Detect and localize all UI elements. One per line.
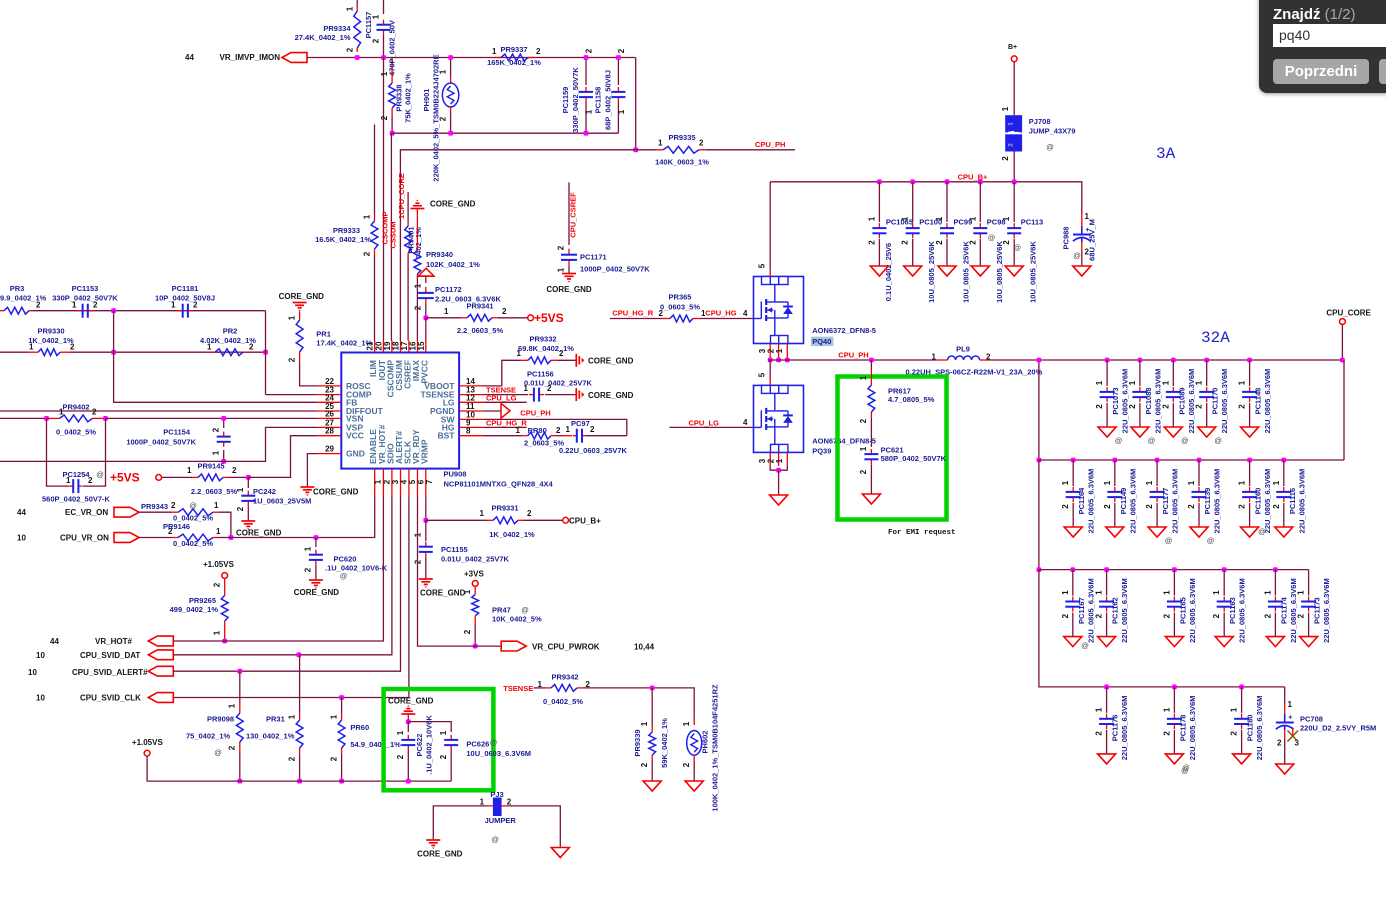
svg-text:1000P_0402_50V7K: 1000P_0402_50V7K: [580, 265, 650, 274]
svg-text:2: 2: [212, 427, 221, 432]
svg-text:1U_0603_25V5M: 1U_0603_25V5M: [253, 497, 311, 506]
wire TSENSE right: [583, 688, 694, 719]
svg-text:1: 1: [171, 301, 176, 310]
svg-text:@: @: [214, 748, 222, 757]
wire CPU_HG_R stub: [610, 318, 663, 320]
ground PC1160: [1241, 527, 1259, 537]
svg-text:29: 29: [325, 445, 334, 454]
svg-text:2: 2: [1095, 613, 1104, 618]
svg-text:22U_0805_6.3V6M: 22U_0805_6.3V6M: [1220, 369, 1229, 434]
capacitor PC626: [450, 735, 452, 740]
svg-text:CORE_GND: CORE_GND: [588, 357, 634, 366]
power arrow PVCC: [418, 268, 434, 276]
svg-text:1: 1: [775, 458, 784, 463]
svg-text:10U_0805_25V6K: 10U_0805_25V6K: [1029, 241, 1038, 303]
junction PQ39 source: [776, 468, 781, 473]
junction PR31 bottom: [297, 779, 302, 784]
svg-text:PR9341: PR9341: [466, 302, 493, 311]
svg-text:@: @: [490, 738, 498, 747]
capacitor PC1065: [878, 182, 880, 222]
svg-text:2: 2: [1061, 613, 1070, 618]
resistor PR9341: [426, 317, 461, 319]
junction row1 PC1170: [1204, 358, 1209, 363]
svg-text:PR3: PR3: [10, 284, 25, 293]
svg-text:PR9334: PR9334: [323, 24, 351, 33]
svg-text:PH602: PH602: [701, 731, 710, 754]
svg-text:10U_0805_25V6K: 10U_0805_25V6K: [927, 241, 936, 303]
wire HG stub: [484, 426, 527, 428]
svg-text:22U_0805_6.3V6M: 22U_0805_6.3V6M: [1213, 469, 1222, 534]
pin 15 PVCC: [425, 341, 427, 353]
pin 14 VBOOT: [459, 385, 484, 387]
svg-text:1: 1: [288, 714, 297, 719]
svg-text:PR365: PR365: [669, 293, 692, 302]
svg-text:PC1160: PC1160: [1254, 488, 1263, 515]
svg-text:1K_0402_1%: 1K_0402_1%: [489, 530, 535, 539]
svg-text:5: 5: [758, 372, 767, 377]
svg-text:PR9333: PR9333: [333, 226, 360, 235]
svg-text:CPU_SVID_CLK: CPU_SVID_CLK: [80, 694, 141, 703]
svg-text:1: 1: [1288, 700, 1293, 709]
svg-text:PR9331: PR9331: [491, 504, 518, 513]
svg-text:580P_0402_50V7K: 580P_0402_50V7K: [881, 454, 947, 463]
resistor PR9402: [47, 417, 60, 419]
ground CORE_GND bar 2: [575, 388, 577, 401]
pin 18 CSSUM: [400, 341, 402, 353]
junction CPU_B+ 912: [910, 179, 915, 184]
svg-text:2: 2: [232, 466, 237, 475]
junction row4 PC1178: [1172, 685, 1177, 690]
junction PC1159 top: [584, 55, 589, 60]
svg-text:2: 2: [463, 629, 472, 634]
svg-text:CPU_CSREF: CPU_CSREF: [569, 192, 578, 238]
resistor PR9343: [139, 511, 172, 513]
svg-text:CORE_GND: CORE_GND: [420, 589, 466, 598]
svg-text:CPU_SVID_DAT: CPU_SVID_DAT: [80, 651, 140, 660]
capacitor PC1171: [568, 249, 570, 255]
ground PC242: [241, 520, 255, 522]
svg-text:2: 2: [236, 506, 245, 511]
svg-text:560P_0402_50V7-K: 560P_0402_50V7-K: [42, 495, 111, 504]
svg-text:44: 44: [185, 53, 194, 62]
svg-text:2: 2: [228, 745, 237, 750]
svg-text:26: 26: [325, 409, 334, 418]
capacitor PC1174: [1274, 570, 1276, 596]
svg-text:PR9337: PR9337: [500, 45, 527, 54]
svg-text:1: 1: [1162, 590, 1171, 595]
svg-text:CPU_SVID_ALERT#: CPU_SVID_ALERT#: [72, 668, 148, 677]
wire left drop row2: [1038, 360, 1040, 460]
svg-text:RR80: RR80: [528, 426, 547, 435]
ground PC708: [1276, 764, 1294, 774]
svg-text:JUMP_43X79: JUMP_43X79: [1029, 127, 1076, 136]
svg-text:75_0402_1%: 75_0402_1%: [186, 732, 231, 741]
resistor PR9339: [651, 688, 653, 726]
svg-text:PC708: PC708: [1300, 715, 1323, 724]
svg-text:1: 1: [1263, 590, 1272, 595]
wire left drop row4: [1039, 570, 1107, 687]
svg-text:@: @: [1258, 527, 1266, 536]
svg-text:2: 2: [1238, 504, 1247, 509]
svg-text:For EMI request: For EMI request: [888, 529, 956, 537]
svg-text:22U_0805_6.3V6M: 22U_0805_6.3V6M: [1086, 578, 1095, 643]
pin 25 DIFFOUT: [317, 410, 342, 412]
svg-text:1: 1: [1212, 590, 1221, 595]
svg-text:8: 8: [466, 427, 471, 436]
svg-text:22U_0805_6.3V6M: 22U_0805_6.3V6M: [1121, 369, 1130, 434]
svg-text:1K_0402_1%: 1K_0402_1%: [28, 336, 74, 345]
svg-text:PC242: PC242: [253, 487, 276, 496]
svg-text:PR9145: PR9145: [197, 462, 224, 471]
svg-text:PC1073: PC1073: [1111, 387, 1120, 414]
wire CSSUM column: [399, 215, 401, 341]
svg-text:+5VS: +5VS: [534, 311, 564, 325]
svg-text:PC1149: PC1149: [1119, 488, 1128, 515]
svg-text:PR9339: PR9339: [633, 729, 642, 756]
svg-text:22U_0805_6.3V6M: 22U_0805_6.3V6M: [1188, 696, 1197, 761]
capacitor PC1254: [69, 485, 73, 487]
ground PC1180: [1233, 754, 1251, 764]
wire PJ708 to rail: [1013, 152, 1015, 182]
svg-text:17.4K_0402_1%: 17.4K_0402_1%: [316, 339, 372, 348]
svg-text:12: 12: [466, 393, 475, 402]
thermistor PH901: [450, 58, 452, 78]
svg-text:1: 1: [859, 446, 868, 451]
wire FB column: [114, 311, 317, 403]
wire CPU_CORE down: [1341, 324, 1343, 360]
svg-text:PR47: PR47: [492, 606, 511, 615]
svg-text:+3VS: +3VS: [464, 570, 484, 579]
svg-text:22U_0805_6.3V6M: 22U_0805_6.3V6M: [1171, 469, 1180, 534]
svg-text:PC1154: PC1154: [163, 428, 191, 437]
svg-text:JUMPER: JUMPER: [485, 816, 517, 825]
junction VRMP cap node: [406, 719, 411, 724]
capacitor PC1154: [223, 418, 225, 428]
svg-text:100K_0402_1%_TSM0B104F4251RZ: 100K_0402_1%_TSM0B104F4251RZ: [711, 684, 720, 812]
resistor PR365: [663, 318, 670, 320]
resistor PR9330: [0, 351, 28, 353]
wire rail1: [33, 310, 266, 312]
pin 20 IOUT: [382, 341, 384, 353]
junction CPU_B+ 1014: [1012, 179, 1017, 184]
capacitor PC621: [870, 449, 872, 454]
thermistor PH602: [693, 719, 695, 725]
capacitor PC1181: [177, 310, 183, 312]
svg-text:@: @: [1165, 536, 1173, 545]
ground PC1149: [1106, 527, 1124, 537]
pin 5 SCLK: [408, 469, 410, 497]
svg-text:PC620: PC620: [334, 555, 357, 564]
svg-text:1: 1: [212, 450, 221, 455]
capacitor PC622: [407, 722, 409, 732]
port VR_CPU_PWROK: [501, 641, 526, 651]
svg-text:@: @: [1115, 436, 1123, 445]
wire VR_HOT#: [173, 496, 383, 641]
svg-text:2: 2: [414, 305, 423, 310]
capacitor PC1164: [1072, 460, 1074, 486]
junction CLK-PR60: [339, 695, 344, 700]
svg-text:NCP81101MNTXG_QFN28_4X4: NCP81101MNTXG_QFN28_4X4: [444, 480, 554, 489]
svg-text:2: 2: [1162, 613, 1171, 618]
svg-text:1: 1: [480, 509, 485, 518]
svg-text:4.7_0805_5%: 4.7_0805_5%: [888, 395, 935, 404]
wire to PQ40 gate: [700, 318, 754, 320]
svg-text:1: 1: [480, 798, 485, 807]
resistor PR617: [870, 360, 872, 370]
ground PC1177: [1148, 527, 1166, 537]
svg-text:330P_0402_50V7K: 330P_0402_50V7K: [571, 67, 580, 133]
capacitor PC1149: [1114, 460, 1116, 486]
wire IMAX column: [416, 209, 418, 251]
svg-text:2.2_0603_5%: 2.2_0603_5%: [457, 326, 504, 335]
ground PJ3 right: [551, 848, 569, 858]
svg-text:PC1159: PC1159: [561, 87, 570, 114]
svg-text:69.8K_0402_1%: 69.8K_0402_1%: [518, 344, 574, 353]
svg-text:2: 2: [288, 357, 297, 362]
svg-text:@: @: [1214, 436, 1222, 445]
svg-text:PQ39: PQ39: [812, 447, 831, 456]
svg-text:PC1153: PC1153: [72, 284, 99, 293]
junction PR9334-rail: [355, 55, 360, 60]
svg-text:1: 1: [1001, 106, 1010, 111]
junction PC1157-rail: [381, 55, 386, 60]
pin 1 ENABLE: [374, 469, 376, 497]
junction PR60 bottom: [339, 779, 344, 784]
wire SW loop: [484, 419, 627, 435]
svg-text:PJ708: PJ708: [1029, 117, 1051, 126]
svg-text:2: 2: [346, 47, 355, 52]
svg-text:CORE_GND: CORE_GND: [279, 292, 325, 301]
capacitor PC1159: [585, 58, 587, 86]
capacitor PC1116: [1283, 460, 1285, 486]
junction row2 PC1177: [1155, 458, 1160, 463]
svg-text:CPU_HG_R: CPU_HG_R: [486, 419, 527, 428]
svg-text:@: @: [96, 470, 104, 479]
svg-text:130_0402_1%: 130_0402_1%: [246, 732, 295, 741]
svg-text:@: @: [1181, 436, 1189, 445]
svg-text:1: 1: [187, 466, 192, 475]
svg-text:22U_0805_6.3V6M: 22U_0805_6.3V6M: [1120, 696, 1129, 761]
svg-text:@: @: [521, 606, 529, 615]
svg-text:PR31: PR31: [266, 715, 285, 724]
svg-text:1: 1: [557, 267, 566, 272]
svg-text:PC1167: PC1167: [1077, 597, 1086, 624]
svg-text:10U_0805_25V6K: 10U_0805_25V6K: [995, 241, 1004, 303]
wire rail to CPU_PH corner: [635, 58, 637, 150]
svg-text:CPU_B+: CPU_B+: [958, 173, 988, 182]
pin 12 LG: [459, 401, 484, 403]
svg-text:PC1162: PC1162: [1111, 597, 1120, 624]
wire PQ40 drain to CPU_B+: [769, 182, 771, 270]
svg-text:@: @: [340, 572, 348, 581]
svg-text:499_0402_1%: 499_0402_1%: [170, 605, 219, 614]
svg-text:2: 2: [585, 48, 594, 53]
wire box bottom: [392, 132, 618, 134]
svg-text:1: 1: [439, 730, 448, 735]
svg-text:1: 1: [1238, 480, 1247, 485]
svg-text:10: 10: [28, 668, 37, 677]
junction CPU_PH corner: [633, 147, 638, 152]
pin 29 GND: [317, 453, 342, 455]
svg-text:1: 1: [1061, 590, 1070, 595]
svg-text:PC1158: PC1158: [594, 87, 603, 114]
svg-text:2: 2: [527, 509, 532, 518]
junction left row3: [1037, 567, 1042, 572]
svg-text:4: 4: [743, 309, 748, 318]
resistor PR2: [210, 351, 215, 353]
svg-text:2: 2: [363, 251, 372, 256]
svg-text:PR9332: PR9332: [529, 335, 556, 344]
junction row4 PC1180: [1239, 685, 1244, 690]
svg-text:44: 44: [17, 508, 26, 517]
junction PQ40 pin2: [776, 358, 781, 363]
svg-text:1: 1: [304, 546, 313, 551]
svg-text:1: 1: [214, 501, 219, 510]
ground PC1088: [1131, 427, 1149, 437]
svg-text:0_0402_5%: 0_0402_5%: [543, 697, 583, 706]
wire PC1181 to COMP node: [265, 311, 267, 395]
svg-text:BST: BST: [438, 431, 456, 441]
svg-text:1: 1: [1095, 707, 1104, 712]
ground PC99: [938, 266, 956, 276]
svg-text:0_0603_5%: 0_0603_5%: [660, 303, 700, 312]
svg-text:1: 1: [444, 307, 449, 316]
wire VCC riser: [248, 436, 316, 478]
capacitor PC1162: [1106, 570, 1108, 596]
junction box bottom-left: [390, 131, 395, 136]
resistor PR9333: [374, 214, 376, 221]
ground PQ39: [770, 495, 788, 505]
svg-text:2: 2: [93, 301, 98, 310]
ground CORE_GND bar 1: [575, 354, 577, 367]
svg-text:@: @: [988, 233, 996, 242]
wire CSSUM to junction: [400, 150, 635, 215]
wire CPU_LG to PQ39: [670, 426, 754, 428]
wire to +5VS: [498, 317, 528, 319]
ground PC1148: [1241, 427, 1259, 437]
junction VSN left: [44, 416, 49, 421]
capacitor PC1163: [1223, 570, 1225, 596]
svg-text:2: 2: [867, 240, 876, 245]
svg-text:54.9_0402_1%: 54.9_0402_1%: [350, 740, 401, 749]
svg-text:24: 24: [325, 393, 334, 402]
pin 10 SW: [459, 418, 484, 420]
svg-text:VRMP: VRMP: [419, 439, 429, 464]
svg-text:5: 5: [758, 263, 767, 268]
junction left row2: [1037, 458, 1042, 463]
junction CPU_B+ 980: [978, 179, 983, 184]
capacitor PC1180: [1241, 687, 1243, 713]
junction PQ40 pin1: [785, 358, 790, 363]
svg-text:1CPU_CORE: 1CPU_CORE: [397, 173, 406, 219]
svg-text:CORE_GND: CORE_GND: [546, 285, 592, 294]
svg-text:B+: B+: [1008, 44, 1017, 51]
ground PC1173: [1300, 637, 1318, 647]
resistor PR1: [299, 312, 301, 321]
highlight green box 1: [384, 689, 494, 790]
svg-text:2: 2: [502, 307, 507, 316]
wire IOUT column: [383, 58, 385, 341]
svg-text:0.22U_0603_25V7K: 0.22U_0603_25V7K: [559, 446, 628, 455]
svg-text:1: 1: [1187, 480, 1196, 485]
svg-text:1: 1: [901, 216, 910, 221]
svg-text:2: 2: [330, 756, 339, 761]
pin 9 HG: [459, 426, 484, 428]
svg-text:2: 2: [536, 47, 541, 56]
wire PJ3 pin1 to ground: [433, 806, 487, 839]
resistor PR60: [341, 698, 343, 714]
pin 26 VSN: [317, 417, 342, 419]
svg-text:1: 1: [236, 487, 245, 492]
svg-text:CPU_PH: CPU_PH: [755, 140, 785, 149]
svg-text:+1.05VS: +1.05VS: [132, 738, 164, 747]
junction left row1: [1037, 358, 1042, 363]
wire PGND stub: [484, 410, 501, 412]
pin 27 VSP: [317, 426, 342, 428]
svg-text:CORE_GND: CORE_GND: [430, 200, 476, 209]
svg-text:2: 2: [968, 240, 977, 245]
pin 16 IMAX: [417, 341, 419, 353]
svg-text:CSSUM: CSSUM: [389, 221, 398, 248]
pin 21 ILIM: [374, 341, 376, 353]
resistor PR9337: [494, 57, 501, 59]
svg-text:2: 2: [859, 469, 868, 474]
svg-text:PR2: PR2: [223, 327, 238, 336]
svg-text:PC1116: PC1116: [1288, 488, 1297, 514]
junction PC1158 top: [616, 55, 621, 60]
svg-text:1: 1: [682, 721, 691, 726]
wire PVCC column: [425, 276, 427, 283]
svg-text:@: @: [1148, 436, 1156, 445]
svg-text:GND: GND: [346, 449, 365, 459]
svg-text:44: 44: [50, 637, 59, 646]
svg-text:PC1139: PC1139: [1203, 488, 1212, 515]
wire PQ39 source tie: [770, 466, 787, 470]
svg-text:1: 1: [968, 216, 977, 221]
ground PC1176: [1098, 754, 1116, 764]
svg-text:CORE_GND: CORE_GND: [313, 488, 359, 497]
junction PH901 bottom: [448, 131, 453, 136]
svg-text:16.5K_0402_1%: 16.5K_0402_1%: [315, 235, 371, 244]
svg-text:2: 2: [1195, 404, 1204, 409]
svg-text:1: 1: [516, 426, 521, 435]
power +5VS circle: [156, 475, 162, 481]
svg-text:0.01U_0402_25V7K: 0.01U_0402_25V7K: [441, 555, 510, 564]
capacitor PC620: [315, 538, 317, 548]
junction PC620: [314, 535, 319, 540]
capacitor PC100: [912, 182, 914, 222]
svg-text:1000P_0402_50V7K: 1000P_0402_50V7K: [126, 438, 196, 447]
capacitor PC1167: [1072, 570, 1074, 596]
ground PC1089: [1164, 427, 1182, 437]
junction row2 PC1164: [1071, 458, 1076, 463]
svg-text:PR9098: PR9098: [207, 715, 234, 724]
svg-text:CPU_LG: CPU_LG: [486, 394, 517, 403]
wire PC1254 loop: [47, 418, 70, 486]
highlight green box 2: [838, 377, 947, 520]
wire PR1 to ROSC: [300, 362, 317, 386]
svg-text:1: 1: [492, 47, 497, 56]
svg-text:PC626: PC626: [466, 740, 489, 749]
capacitor PC1165: [1173, 570, 1175, 596]
svg-text:PC1148: PC1148: [1254, 388, 1263, 415]
svg-text:10: 10: [36, 694, 45, 703]
resistor PR9332: [521, 359, 528, 361]
wire left drop row3: [1038, 460, 1040, 570]
transistor PQ39: [754, 385, 804, 452]
svg-text:2: 2: [1128, 404, 1137, 409]
capacitor PC1157: [383, 0, 385, 14]
